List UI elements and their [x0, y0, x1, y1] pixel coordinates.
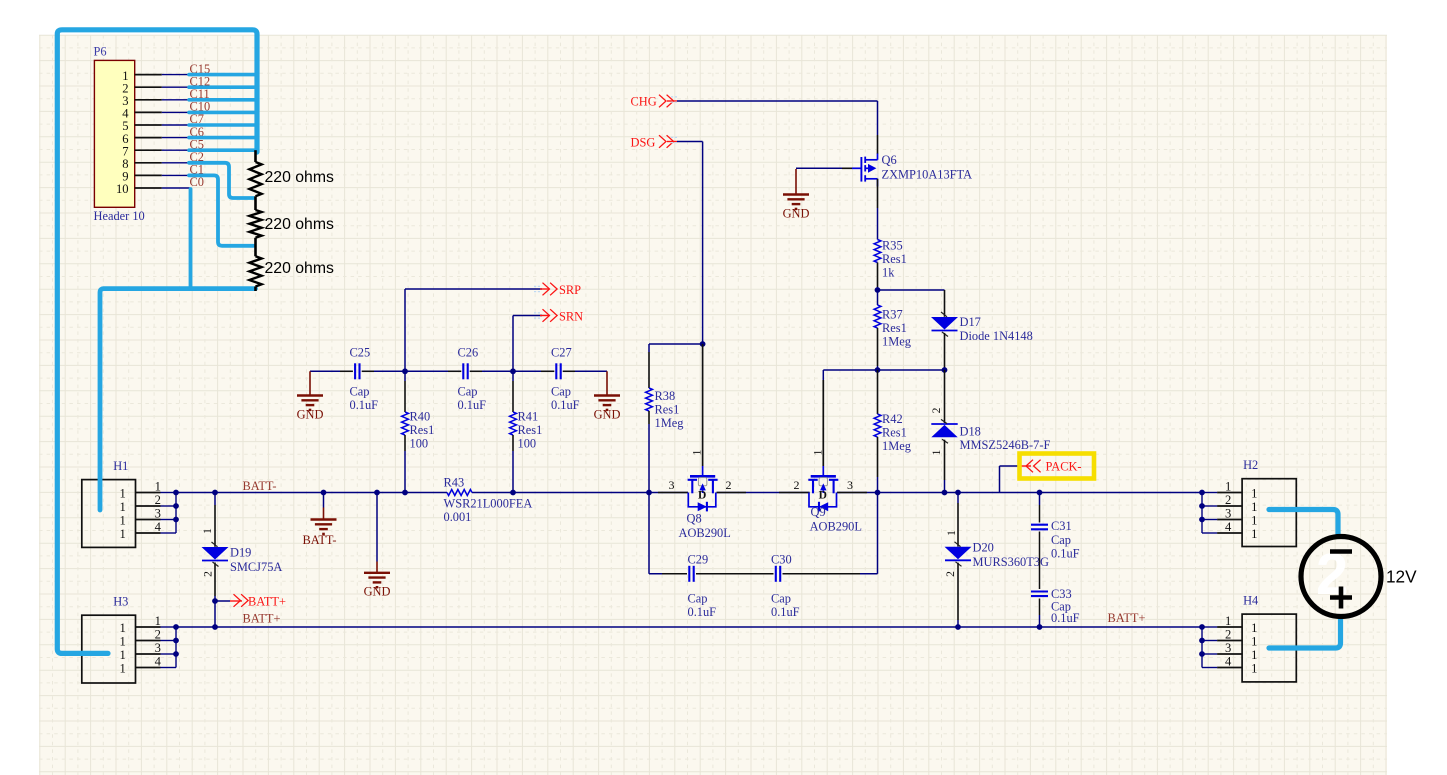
svg-text:1: 1	[120, 648, 126, 662]
svg-text:SRN: SRN	[559, 309, 583, 323]
connector H3	[82, 595, 179, 684]
wire BATT+ rail	[176, 626, 1202, 628]
12V source circle	[1301, 537, 1381, 617]
resistor R37	[874, 290, 911, 370]
connector H1	[82, 459, 179, 547]
wire Q6 gate	[796, 167, 861, 169]
svg-text:2: 2	[203, 571, 215, 577]
svg-text:0.1uF: 0.1uF	[688, 605, 717, 619]
svg-text:1k: 1k	[882, 265, 895, 279]
svg-text:2: 2	[726, 478, 732, 492]
svg-text:1: 1	[120, 527, 126, 541]
svg-text:1: 1	[1251, 662, 1257, 676]
svg-text:0.1uF: 0.1uF	[350, 398, 379, 412]
svg-text:BATT-: BATT-	[303, 533, 337, 547]
svg-text:1: 1	[1251, 514, 1257, 528]
svg-text:BATT+: BATT+	[243, 612, 281, 626]
svg-text:WSR21L000FEA: WSR21L000FEA	[444, 497, 533, 511]
svg-text:Header 10: Header 10	[94, 209, 145, 223]
wire between R1/R2	[254, 196, 257, 210]
node y370	[823, 367, 947, 373]
svg-text:MMSZ5246B-7-F: MMSZ5246B-7-F	[960, 438, 1051, 452]
wire D19 column	[214, 493, 216, 628]
svg-text:1: 1	[120, 662, 126, 676]
net label C0	[190, 175, 204, 189]
plus sign	[1330, 587, 1352, 609]
wire PACK-	[1000, 466, 1019, 493]
svg-text:100: 100	[518, 437, 537, 451]
svg-text:4: 4	[155, 520, 162, 534]
svg-text:Cap: Cap	[771, 591, 791, 605]
junction dots BATT+ rail	[212, 624, 1042, 630]
svg-text:Cap: Cap	[688, 591, 708, 605]
header P6	[94, 45, 145, 224]
svg-text:PACK-: PACK-	[1046, 460, 1082, 474]
net label C2	[190, 150, 204, 164]
svg-text:3: 3	[669, 478, 675, 492]
svg-text:2: 2	[1225, 493, 1231, 507]
wire cyan C2	[189, 163, 254, 198]
diode D19 SMCJ75A	[202, 528, 283, 577]
connector H4	[1199, 594, 1296, 682]
transistor Q9 AOB290L	[794, 370, 862, 534]
net label C7	[190, 112, 204, 126]
svg-text:C31: C31	[1051, 519, 1072, 533]
wire cyan main loop	[57, 30, 257, 654]
ground GND at Q6	[783, 169, 810, 221]
svg-text:C26: C26	[458, 346, 479, 360]
svg-text:SRP: SRP	[559, 283, 581, 297]
svg-text:4: 4	[1225, 520, 1232, 534]
wire R3 bottom	[254, 287, 257, 292]
svg-text:1: 1	[931, 449, 943, 455]
svg-text:1: 1	[120, 487, 126, 501]
svg-text:12V: 12V	[1386, 567, 1417, 587]
svg-text:AOB290L: AOB290L	[679, 526, 731, 540]
svg-text:1: 1	[1251, 527, 1257, 541]
net label C12	[190, 74, 211, 88]
svg-text:4: 4	[1225, 655, 1232, 669]
svg-text:R40: R40	[410, 410, 431, 424]
resistor R41	[510, 371, 543, 492]
port DSG	[631, 135, 678, 149]
svg-text:C27: C27	[551, 346, 572, 360]
svg-text:Diode 1N4148: Diode 1N4148	[960, 329, 1033, 343]
diode D18 MMSZ5246B-7-F	[931, 370, 1050, 493]
wire cyan C0	[189, 189, 193, 289]
svg-text:H2: H2	[1243, 458, 1258, 472]
wire cyan C1	[189, 175, 254, 245]
ground GND mid	[364, 493, 391, 599]
port BATT+	[212, 594, 286, 608]
svg-text:0.1uF: 0.1uF	[1051, 547, 1080, 561]
svg-text:D: D	[698, 490, 706, 502]
svg-text:R41: R41	[518, 410, 539, 424]
svg-text:BATT+: BATT+	[248, 594, 286, 608]
capacitor C26	[458, 346, 487, 412]
capacitor C25	[350, 346, 379, 412]
svg-text:1: 1	[1225, 480, 1231, 494]
wire cap filter line	[310, 368, 607, 374]
junction dots BATT- rail	[212, 490, 1042, 496]
resistor R42	[874, 370, 911, 493]
svg-text:1: 1	[1251, 500, 1257, 514]
wire SRP	[405, 289, 542, 371]
svg-text:1: 1	[120, 500, 126, 514]
svg-text:BATT-: BATT-	[243, 479, 277, 493]
net label BATT-	[243, 479, 277, 493]
svg-text:220 ohms: 220 ohms	[265, 216, 334, 233]
wire cyan H4 to 12V	[1269, 618, 1341, 648]
wire C29/C30 line	[649, 493, 878, 574]
svg-text:Res1: Res1	[882, 252, 907, 266]
svg-text:R42: R42	[882, 412, 903, 426]
svg-text:D19: D19	[230, 546, 251, 560]
svg-text:1Meg: 1Meg	[882, 334, 911, 348]
svg-text:GND: GND	[364, 585, 391, 599]
svg-text:CHG: CHG	[631, 95, 657, 109]
svg-text:BATT+: BATT+	[1108, 611, 1146, 625]
connector H2	[1199, 458, 1296, 547]
wire between R2/R3	[254, 238, 257, 257]
svg-text:H4: H4	[1243, 594, 1258, 608]
svg-text:Res1: Res1	[882, 426, 907, 440]
svg-text:1: 1	[692, 449, 704, 455]
svg-text:1: 1	[120, 635, 126, 649]
svg-text:2: 2	[931, 407, 943, 413]
svg-text:1: 1	[155, 614, 161, 628]
svg-text:MURS360T3G: MURS360T3G	[973, 555, 1049, 569]
svg-text:2: 2	[155, 628, 161, 642]
220 ohm resistor chain top stub	[254, 150, 257, 162]
diode D20 MURS360T3G	[945, 493, 1049, 628]
svg-text:Cap: Cap	[551, 384, 571, 398]
net label C10	[190, 100, 211, 114]
svg-text:10: 10	[116, 182, 129, 196]
net label C15	[190, 62, 211, 76]
svg-text:C30: C30	[771, 552, 792, 566]
port CHG	[631, 95, 678, 109]
svg-text:1: 1	[1251, 487, 1257, 501]
resistor R38	[646, 344, 684, 493]
svg-text:GND: GND	[594, 407, 621, 421]
wires P6 nets	[162, 75, 190, 188]
svg-text:AOB290L: AOB290L	[810, 520, 862, 534]
net label C1	[190, 163, 204, 177]
svg-text:0.001: 0.001	[444, 510, 472, 524]
svg-text:0.1uF: 0.1uF	[771, 605, 800, 619]
svg-text:Cap: Cap	[350, 384, 370, 398]
port PACK-	[1018, 460, 1082, 474]
svg-text:4: 4	[155, 655, 162, 669]
wire SRN	[513, 316, 542, 372]
port SRP	[534, 283, 581, 297]
svg-text:3: 3	[1225, 641, 1231, 655]
capacitor C29	[688, 552, 717, 619]
wire CHG	[677, 101, 878, 154]
svg-text:0.1uF: 0.1uF	[458, 398, 487, 412]
svg-text:Res1: Res1	[882, 321, 907, 335]
svg-text:0.1uF: 0.1uF	[551, 398, 580, 412]
svg-text:3: 3	[1225, 507, 1231, 521]
resistor 220 ohms #3	[249, 256, 334, 286]
diode D17 1N4148	[931, 290, 1033, 370]
svg-text:3: 3	[155, 507, 161, 521]
svg-text:1: 1	[1251, 635, 1257, 649]
capacitor C33	[1031, 587, 1080, 625]
resistor R35	[874, 238, 907, 290]
resistor R40	[402, 371, 435, 492]
svg-text:1: 1	[946, 530, 958, 536]
svg-text:R38: R38	[655, 389, 676, 403]
svg-text:3: 3	[847, 478, 853, 492]
capacitor C30	[771, 552, 800, 619]
svg-text:C25: C25	[350, 346, 371, 360]
highlight box PACK-	[1020, 454, 1095, 479]
svg-text:D20: D20	[973, 541, 994, 555]
svg-text:Res1: Res1	[655, 403, 680, 417]
svg-text:2: 2	[945, 571, 957, 577]
svg-text:Q6: Q6	[882, 153, 897, 167]
svg-text:H1: H1	[113, 459, 128, 473]
wire cyan H2 to 12V	[1269, 510, 1338, 535]
svg-text:GND: GND	[783, 207, 810, 221]
svg-text:3: 3	[155, 641, 161, 655]
svg-text:Q9: Q9	[811, 505, 826, 519]
net label BATT+ left	[243, 612, 281, 626]
wire DSG node	[649, 341, 705, 347]
svg-text:1Meg: 1Meg	[882, 439, 911, 453]
svg-text:1: 1	[120, 621, 126, 635]
svg-text:1: 1	[120, 514, 126, 528]
capacitor C31	[1031, 519, 1080, 561]
P6 pins 1-10	[135, 75, 162, 188]
svg-text:0.1uF: 0.1uF	[1051, 611, 1080, 625]
svg-text:2: 2	[1225, 628, 1231, 642]
svg-text:2: 2	[155, 493, 161, 507]
svg-text:H3: H3	[113, 595, 128, 609]
svg-text:1: 1	[812, 449, 824, 455]
net label C5	[190, 137, 204, 151]
wire C31/C33 column	[1039, 493, 1041, 628]
svg-text:D: D	[819, 490, 827, 502]
svg-text:R43: R43	[444, 476, 465, 490]
svg-text:1: 1	[1251, 621, 1257, 635]
svg-text:GND: GND	[297, 407, 324, 421]
svg-text:2: 2	[794, 478, 800, 492]
wire cyan C0 to H1	[100, 289, 256, 510]
net label BATT+ right	[1108, 611, 1146, 625]
svg-text:1: 1	[1225, 614, 1231, 628]
resistor R43	[444, 476, 533, 525]
svg-text:R35: R35	[882, 238, 903, 252]
svg-text:Res1: Res1	[518, 423, 543, 437]
power port BATT-	[303, 493, 337, 548]
transistor Q6 ZXMP10A13FTA	[861, 153, 972, 187]
svg-text:220 ohms: 220 ohms	[265, 260, 334, 277]
svg-text:P6: P6	[94, 45, 107, 59]
svg-text:SMCJ75A: SMCJ75A	[230, 560, 282, 574]
svg-text:C0: C0	[190, 175, 204, 189]
ground GND right of C27	[594, 371, 621, 421]
net label C11	[190, 87, 210, 101]
transistor Q8 AOB290L	[669, 344, 732, 540]
net label C6	[190, 125, 204, 139]
wire BATT- rail	[176, 492, 1202, 494]
port SRN	[534, 309, 583, 323]
ground GND left of C25	[297, 371, 324, 421]
svg-text:1: 1	[1251, 648, 1257, 662]
svg-text:D18: D18	[960, 425, 981, 439]
svg-text:Cap: Cap	[458, 384, 478, 398]
wire Q6 drain column	[877, 179, 879, 240]
svg-text:C29: C29	[688, 552, 709, 566]
wires cyan P6 nets to bus	[189, 75, 258, 151]
svg-text:1: 1	[202, 528, 214, 534]
node R35/R37/D17	[875, 287, 945, 293]
svg-text:1: 1	[155, 480, 161, 494]
svg-text:Res1: Res1	[410, 423, 435, 437]
resistor 220 ohms #1	[249, 162, 334, 196]
svg-text:Q8: Q8	[687, 511, 702, 525]
svg-text:Cap: Cap	[1051, 533, 1071, 547]
minus sign	[1330, 549, 1352, 554]
svg-text:1Meg: 1Meg	[655, 416, 684, 430]
svg-text:220 ohms: 220 ohms	[265, 169, 334, 186]
capacitor C27	[551, 346, 580, 412]
svg-text:R37: R37	[882, 307, 903, 321]
svg-text:DSG: DSG	[631, 135, 656, 149]
resistor 220 ohms #2	[249, 210, 334, 238]
svg-text:ZXMP10A13FTA: ZXMP10A13FTA	[882, 168, 973, 182]
svg-text:100: 100	[410, 437, 429, 451]
svg-text:D17: D17	[960, 315, 981, 329]
wire DSG	[677, 142, 703, 345]
